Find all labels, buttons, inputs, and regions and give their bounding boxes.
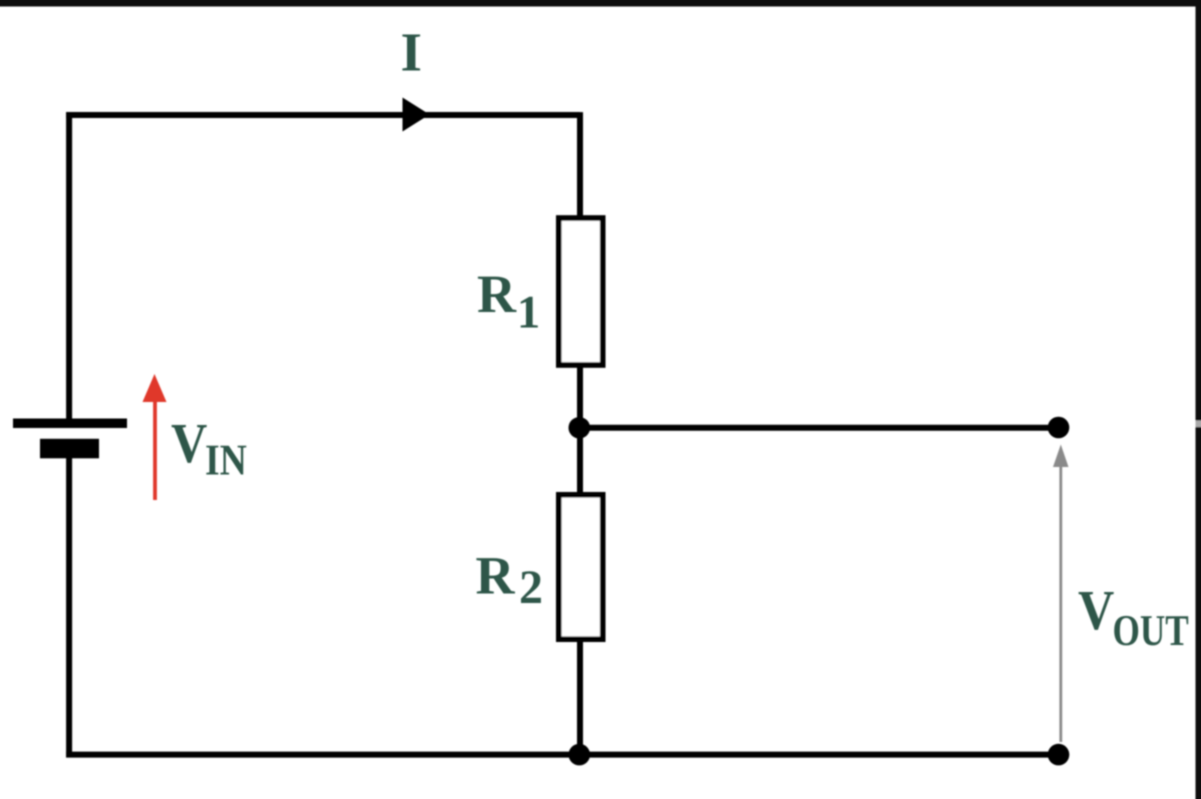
- wire: left vertical lower (battery - to bottom wire): [66, 458, 72, 758]
- wire: top horizontal (battery + to R1): [66, 112, 580, 118]
- right border bar: [1196, 0, 1201, 799]
- label R2: [476, 558, 515, 593]
- right border gray notch (wire crossing): [1196, 421, 1201, 428]
- node A junction dot (R1/R2/Vout tap): [569, 417, 591, 439]
- node dot Vout-: [1048, 744, 1070, 766]
- node dot bottom junction: [569, 744, 591, 766]
- wire: node A to R2: [577, 428, 583, 494]
- resistor R1 body: [559, 218, 603, 365]
- red arrow shaft (Vin polarity): [153, 402, 157, 500]
- wire: R2 bottom to bottom wire: [577, 641, 583, 755]
- node dot Vout+: [1048, 417, 1070, 439]
- wire: left vertical upper (top wire to battery +): [66, 112, 72, 418]
- label R1: [478, 277, 517, 312]
- battery V1 long plate (+): [13, 419, 127, 429]
- resistor R2 body: [559, 495, 603, 639]
- current arrowhead on top wire: [403, 98, 430, 132]
- label VOUT: [1079, 592, 1114, 630]
- label VIN: [172, 425, 207, 463]
- label I: [402, 35, 420, 71]
- wire: vertical into R1: [577, 112, 583, 218]
- gray Vout arrowhead: [1053, 445, 1069, 468]
- top border bar: [0, 0, 1201, 7]
- battery V1 short thick plate (-): [40, 439, 99, 459]
- red arrowhead: [143, 374, 167, 402]
- gray Vout arrow shaft: [1059, 465, 1062, 742]
- wire: middle horizontal (node A to Vout+): [579, 425, 1058, 431]
- wire: bottom horizontal: [66, 752, 1058, 758]
- wire: R1 bottom to node A: [577, 368, 583, 431]
